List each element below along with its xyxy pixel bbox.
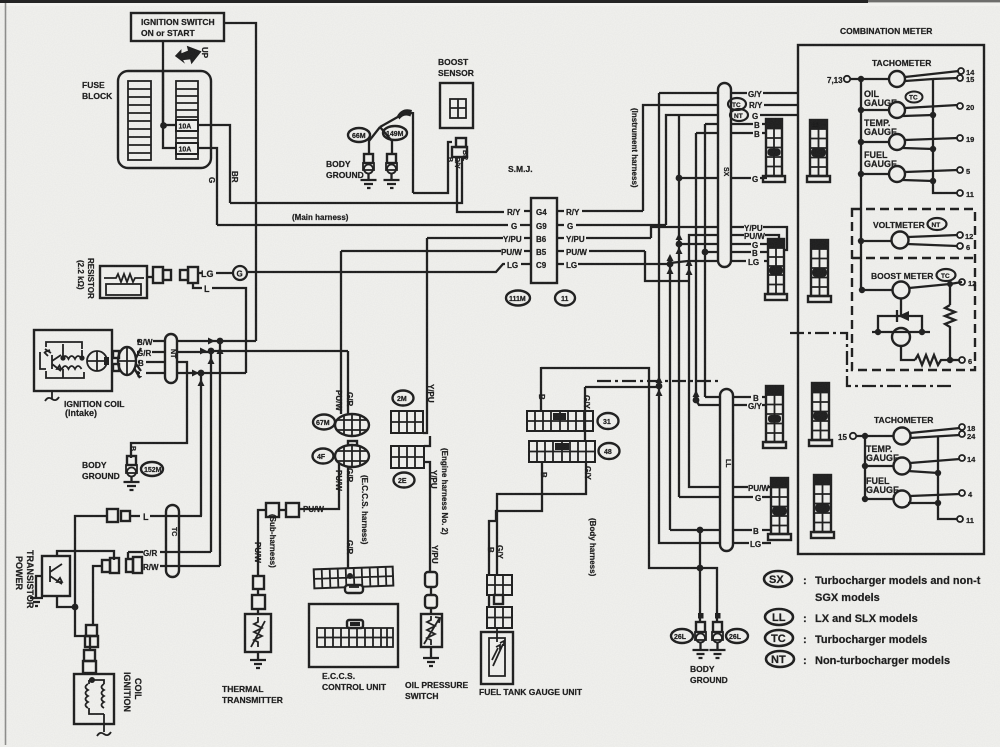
oil pressure switch box [421,614,442,647]
connector 4F (oval grid) [335,445,369,467]
voltmeter gauge [858,238,864,244]
thermal plug [253,576,264,589]
boost gauge [859,287,865,293]
scan frame left line [5,3,7,745]
ground bulb left 26L [696,622,705,632]
coil internal transistor [44,349,61,371]
ground bulb right 26L [713,622,722,632]
transistor symbol [50,564,62,584]
ground symbol 152M [124,476,140,490]
wire G/R [136,352,211,361]
tachometer gauge [889,71,905,87]
riser G/R down to TC area with up arrow [210,351,212,552]
ground at power transistor [30,576,43,606]
coil internal routing [40,342,84,378]
wire G riser [666,115,731,225]
coil distributor circle [87,351,107,371]
boost emitter resistor [901,346,954,365]
meter connector B [808,240,831,302]
2M oval label [393,391,414,406]
splice arrow on G/R line [200,348,207,355]
connector 67M (oval grid) [335,414,369,436]
thermal connector pair [266,503,279,517]
junction dot L line [198,370,205,377]
oval 48 [599,443,620,459]
wire B of boost connector [413,142,452,193]
SX harness capsule [718,83,731,267]
wire ignition switch to fuse block [162,41,164,125]
fuel tank gauge connector 1 [487,575,512,595]
wire PU/W down to 67M [340,251,342,414]
body ground 26L left small B label [698,613,704,619]
NT harness capsule [165,334,177,383]
wire G horizontal to S.M.J. G9 [217,224,508,226]
body ground bulb [127,456,136,465]
connector 3 [763,386,786,448]
fuse column right [176,81,198,159]
wire B conn2 [702,249,709,256]
wire G/Y splice to conn3 [656,383,663,390]
body ground 26L right small B label [715,613,721,619]
connector below loop [102,560,110,572]
wire PU/W riser lower part [689,281,748,487]
TC harness capsule [166,505,179,577]
fuel gauge 2 [862,496,868,502]
ignition coil (lower) box [74,674,114,724]
boost transistor [900,298,902,316]
fuse block body [118,71,211,168]
LL harness capsule [720,389,733,551]
ops variable resistor [424,616,440,645]
ECCS inner connector strip [317,628,393,647]
boost resistor right [945,284,955,360]
wire B conn1 second [696,132,767,134]
boost diode loop [878,316,922,332]
legend oval NT [766,651,794,667]
fuse column left [128,81,151,160]
meter connector A [807,120,830,182]
UP arrow [173,43,204,68]
oval 31 [598,413,619,429]
legend oval LL [765,609,793,625]
S.M.J. connector box [531,198,557,283]
wire PU/W S.M.J. drop [645,251,689,281]
splice arrows on PU/W riser [686,268,693,275]
tachometer 2 gauge [894,428,911,445]
ECCS top connector strip [314,567,394,589]
feed wire inside fuse block [163,71,176,148]
wire LG to connector 2 [670,261,769,263]
wire L from resistor connector [193,283,246,373]
wire BR from fuse 10A no.1 [198,125,230,203]
coil internal windings [62,356,82,369]
node G circle [233,266,247,280]
wire node G to S.M.J. LG row [248,264,505,272]
wire PU/W hook into connector 2 [765,235,779,240]
connector pair G/R-R/W [126,559,133,572]
oval NT voltmeter [928,218,947,230]
resistor element zigzag [104,274,144,282]
wire G/R entering connector at TC [128,552,211,559]
wire to left ground bulb [699,530,701,623]
ignition coil (lower) connector stack [84,650,95,661]
ground bulb right [387,154,396,163]
wire L [134,368,246,378]
wire L at TC [107,509,118,522]
wire G bundle vertical [678,115,680,497]
oval 26L right [726,629,748,643]
ignition coil (intake) box [34,330,112,391]
wire down to thermal transmitter [258,510,266,576]
terminal 14 [958,68,964,74]
dash-dot section boundary [790,333,954,386]
wire G/Y conn3 from bundle [693,397,700,404]
temp gauge 2 [862,463,868,469]
fuse 10A no.2 [176,143,198,154]
fuel tank gauge connector 2 [487,607,512,628]
ground bulb left [364,154,373,163]
thermal transmitter box [245,614,271,652]
riser R/W down to TC area with up arrow [219,341,221,566]
terminal 15 [933,78,958,79]
oval label 67M [313,415,335,430]
left bus lower [864,436,866,499]
connector 2E grid [391,446,424,468]
connector 31 grid [527,411,593,431]
coil connector oval [118,347,136,375]
fuel tank gauge unit box [481,632,513,684]
ignition switch box [131,13,224,41]
junction dot feed/fuse1 [160,122,167,129]
riser L down to TC area with up arrow [200,373,202,516]
terminal 11 [957,190,963,196]
wire LG to node G [198,272,233,274]
boost sensor window [450,99,466,118]
wire B below 48 to fuel tank gauge [489,462,542,615]
THERMAL TRANSMITTER sub-harness wire [300,464,339,509]
connector 4 [768,478,791,540]
link 2M to 2E [424,436,430,446]
fuse 10A no.1 [176,120,198,131]
wire G/R down to 67M [211,351,348,414]
thermal ground [250,652,266,668]
oval TC + R/Y label [728,98,746,110]
junction dot G/R line [208,348,215,355]
wire Y/PU hook to connector 2 [763,227,787,250]
power transistor top loop to connector [57,551,114,560]
terminal 11 lower [957,516,963,522]
dashed voltmeter/boost outer box [852,209,975,370]
connector 48 grid [529,441,595,462]
wire G to conn2 [676,241,683,248]
2E oval label [394,473,415,488]
wire sleeve to grounds [369,112,413,193]
thermistor symbol [251,617,265,647]
wire B body-ground lower [541,368,717,623]
resistor R (2.2k) box [100,266,147,298]
wire R/Y of boost sensor down to S.M.J. [457,161,504,212]
wire Y/PU jog [651,227,744,238]
ops ground [423,647,439,666]
ECCS inner tab [347,620,363,628]
legend oval TC [765,630,793,646]
body ground sleeve blob [397,109,412,119]
oil pressure switch plug 2 [425,595,437,608]
junction dot at power transistor output [72,604,79,611]
connector 1 (instrument) [763,119,785,182]
wire BR horizontal to boost sensor [230,158,462,203]
oval 111M [506,291,530,306]
boost sensor connector [456,138,466,147]
dash-dot boundary left of meter [597,380,718,382]
wire B [131,362,187,458]
temp gauge [858,139,864,145]
boost sensor box [440,83,473,128]
fuel gauge [858,171,864,177]
wire from connector to coil lower [93,566,102,625]
oval TC oil [906,92,923,103]
legend oval SX [764,571,792,587]
oil pressure switch plug 1 [425,572,437,587]
thermal connector [252,595,265,609]
scan top edge line [0,0,868,3]
wire B conn1 upper [705,123,767,125]
fuel tank gauge pin [494,595,503,604]
dashed separator [852,257,975,259]
wire G conn4 [679,496,772,498]
wire G/Y vertical [659,93,749,543]
wire G/Y below 48 to fuel tank gauge [497,462,586,575]
wire B into connector 31 [540,367,542,411]
oval label 4F [313,449,334,464]
oval 11 [555,291,575,306]
oval 152M [141,462,163,476]
meter connector D [811,475,834,538]
coil tail [97,714,111,736]
ECCS top strip tab [345,585,363,593]
coil box tail [45,391,59,401]
power transistor box [42,556,70,596]
oval NT + G label [730,109,748,121]
splice arrow on B/W line [208,338,215,345]
wire L left to power transistor loop [75,516,107,650]
left bus upper [860,79,862,290]
wire LG from S.M.J. junction [667,261,674,268]
boost junction dot [947,281,953,287]
power transistor bottom to junction [57,596,75,607]
oil gauge [858,107,864,113]
wire B conn3 [705,396,767,398]
wire G mid to conn1 [676,175,683,182]
connector 4F tab [348,441,357,448]
wire R/W [142,565,220,567]
connector 2M grid [391,411,423,433]
wire R/Y riser to instrument harness [643,105,727,211]
splice arrow on L line [192,370,199,377]
wire G/Y into connector 48 [584,387,586,441]
combination meter box [798,45,984,554]
wire ignition switch right to B/W feed [224,23,256,341]
wire PU/W riser to label [689,235,744,281]
right bus lower [938,437,957,519]
oval TC boost [937,269,956,281]
coil windings lower [86,684,105,708]
right bus upper [933,79,957,193]
wire B conn4 [670,529,772,531]
wire G from fuse 10A no.2 [198,148,217,225]
wire G/R below 4F to ECCS [347,466,349,568]
wire B conn2 riser down [704,124,706,397]
wire B/W [136,341,256,358]
ftgu internal [489,628,505,676]
plug stack to ignition coil [86,625,97,636]
E.C.C.S. control unit box [309,604,398,667]
meter connector C [809,383,832,446]
wire Y/PU below 2E to oil pressure switch [424,462,430,572]
oval 149M [383,126,407,140]
wire LG vertical down [669,264,671,530]
junction dots on B/W line [217,338,224,345]
resistor connector pair [147,276,153,278]
connector 2 [765,239,787,300]
wire Y/PU from S.M.J. to 2M [423,238,427,433]
oval 66M [348,128,370,142]
oval 26L left [671,629,693,643]
